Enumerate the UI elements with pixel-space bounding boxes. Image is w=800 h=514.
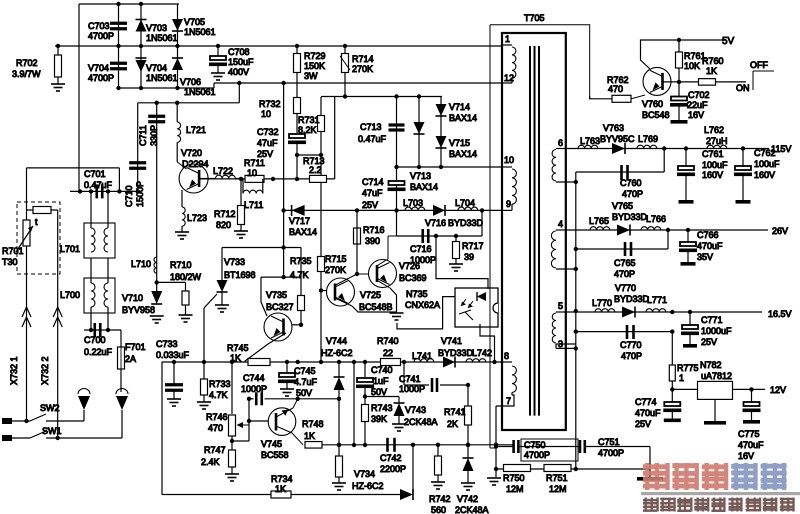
svg-text:V743: V743 [405,405,426,415]
svg-text:270K: 270K [352,64,373,74]
svg-text:V760: V760 [642,99,663,109]
svg-text:4.7K: 4.7K [290,270,309,280]
svg-text:BT1698: BT1698 [224,270,256,280]
svg-text:V725: V725 [360,290,381,300]
svg-text:OFF: OFF [750,60,768,70]
svg-text:25V: 25V [362,200,378,210]
svg-text:R715: R715 [325,254,347,264]
svg-text:1N5061: 1N5061 [184,87,216,97]
svg-text:L741: L741 [412,351,432,361]
svg-text:L763: L763 [580,136,600,146]
svg-text:2CK48A: 2CK48A [404,417,438,427]
svg-text:L742: L742 [472,348,492,358]
svg-text:470P: 470P [622,189,643,199]
svg-text:1000uF: 1000uF [701,326,732,336]
svg-text:V735: V735 [266,290,287,300]
svg-text:10K: 10K [684,61,700,71]
svg-text:50V: 50V [371,387,387,397]
svg-text:V765: V765 [612,201,633,211]
svg-text:8: 8 [504,351,509,361]
svg-text:3.9/7W: 3.9/7W [12,69,41,79]
svg-text:L765: L765 [589,216,609,226]
svg-text:5: 5 [558,301,563,311]
svg-text:L704: L704 [455,198,475,208]
svg-text:9: 9 [506,199,511,209]
svg-text:1K: 1K [304,431,315,441]
svg-text:L701: L701 [60,244,80,254]
svg-text:26V: 26V [772,226,788,236]
svg-text:10: 10 [504,155,514,165]
svg-text:4700P: 4700P [524,450,550,460]
svg-text:C775: C775 [738,429,760,439]
svg-text:BYD33D: BYD33D [612,212,648,222]
svg-text:V770: V770 [615,283,636,293]
svg-text:1K: 1K [275,484,286,494]
svg-text:L722: L722 [213,166,233,176]
svg-text:R775: R775 [677,363,699,373]
svg-text:V741: V741 [441,336,462,346]
svg-text:C733: C733 [156,339,178,349]
svg-text:47uF: 47uF [257,138,278,148]
svg-text:16.5V: 16.5V [768,309,792,319]
svg-text:180/2W: 180/2W [170,272,202,282]
svg-text:0.47uF: 0.47uF [358,134,387,144]
svg-text:2.4K: 2.4K [201,457,220,467]
svg-text:25V: 25V [701,337,717,347]
svg-text:6: 6 [558,138,563,148]
svg-text:C732: C732 [257,127,279,137]
svg-text:4.7K: 4.7K [209,390,228,400]
svg-text:39K: 39K [371,414,387,424]
svg-text:ON: ON [736,83,750,93]
svg-text:390: 390 [365,236,380,246]
svg-text:SW1: SW1 [42,426,62,436]
svg-text:50V: 50V [296,388,312,398]
svg-text:L769: L769 [638,134,658,144]
svg-text:R733: R733 [209,379,231,389]
svg-text:560: 560 [431,505,446,514]
svg-text:T705: T705 [524,13,545,23]
svg-text:1N5061: 1N5061 [184,27,216,37]
svg-text:4700P: 4700P [598,448,624,458]
svg-text:47uF: 47uF [362,188,383,198]
svg-text:150uF: 150uF [228,57,254,67]
svg-text:T30: T30 [2,257,18,267]
svg-text:4.7uF: 4.7uF [294,377,318,387]
svg-text:L762: L762 [704,125,724,135]
svg-text:R701: R701 [2,246,24,256]
svg-text:R712: R712 [214,209,236,219]
svg-text:R702: R702 [16,58,38,68]
svg-text:4: 4 [558,219,563,229]
svg-text:V742: V742 [457,494,478,504]
svg-text:39: 39 [464,252,474,262]
svg-text:C702: C702 [688,90,710,100]
svg-text:100uF: 100uF [754,159,780,169]
svg-text:12M: 12M [549,484,567,494]
svg-text:V745: V745 [261,439,282,449]
svg-text:C761: C761 [702,149,724,159]
svg-text:C708: C708 [228,47,250,57]
svg-text:BYV95C: BYV95C [600,134,635,144]
svg-text:V733: V733 [224,257,245,267]
svg-text:R745: R745 [227,343,249,353]
svg-text:C766: C766 [697,230,719,240]
svg-text:10: 10 [261,109,271,119]
svg-text:22: 22 [383,348,393,358]
svg-text:C744: C744 [243,373,265,383]
svg-text:X732 1: X732 1 [9,356,19,385]
svg-text:270K: 270K [325,265,346,275]
svg-text:L703: L703 [403,198,423,208]
svg-text:470: 470 [608,84,623,94]
svg-text:0.47uF: 0.47uF [84,180,113,190]
svg-text:150K: 150K [304,61,325,71]
svg-text:820: 820 [216,220,231,230]
svg-text:BYD33D: BYD33D [448,218,484,228]
svg-text:1N5061: 1N5061 [146,73,178,83]
svg-text:2200P: 2200P [380,464,406,474]
svg-text:R714: R714 [352,54,374,64]
svg-text:BC369: BC369 [399,273,427,283]
svg-text:L711: L711 [244,200,263,210]
svg-text:C770: C770 [620,340,642,350]
svg-text:C765: C765 [614,258,636,268]
svg-text:C760: C760 [620,178,642,188]
svg-text:N735: N735 [406,289,428,299]
svg-text:C762: C762 [754,148,776,158]
svg-text:V715: V715 [449,138,470,148]
svg-text:1000P: 1000P [241,384,267,394]
svg-text:400V: 400V [228,67,249,77]
svg-text:BYD33D: BYD33D [614,294,650,304]
svg-text:L700: L700 [60,290,80,300]
svg-text:R746: R746 [206,412,228,422]
svg-text:X732 2: X732 2 [40,356,50,385]
svg-text:R751: R751 [546,473,568,483]
svg-text:V716: V716 [425,218,446,228]
svg-text:L771: L771 [647,295,667,305]
svg-text:25V: 25V [635,419,651,429]
svg-text:470uF: 470uF [697,241,723,251]
svg-text:V734: V734 [354,469,375,479]
svg-text:16V: 16V [688,110,704,120]
svg-text:N782: N782 [700,360,722,370]
svg-text:L710: L710 [131,259,151,269]
svg-text:R729: R729 [304,51,326,61]
svg-text:BYV958: BYV958 [122,305,155,315]
svg-text:R716: R716 [363,225,385,235]
svg-text:1: 1 [505,34,510,44]
svg-text:uA7812: uA7812 [701,371,732,381]
svg-text:C716: C716 [410,244,432,254]
svg-text:8.2K: 8.2K [298,125,317,135]
svg-text:HZ-6C2: HZ-6C2 [352,481,384,491]
svg-text:1N5061: 1N5061 [146,33,178,43]
svg-text:2K: 2K [447,419,458,429]
svg-text:L770: L770 [592,298,612,308]
svg-text:BC327: BC327 [266,302,294,312]
svg-text:R734: R734 [271,474,293,484]
svg-text:C714: C714 [362,177,384,187]
svg-text:L766: L766 [646,214,666,224]
svg-text:160V: 160V [754,170,775,180]
svg-text:R740: R740 [377,336,399,346]
svg-text:470: 470 [208,423,223,433]
svg-text:2A: 2A [125,354,136,364]
svg-text:1uF: 1uF [373,376,389,386]
svg-text:7: 7 [506,396,511,406]
svg-text:1500P: 1500P [135,181,145,207]
svg-text:V705: V705 [184,17,205,27]
svg-text:BC548B: BC548B [359,302,393,312]
svg-text:L723: L723 [187,213,207,223]
svg-text:V704: V704 [146,63,167,73]
svg-text:BAX14: BAX14 [289,227,317,237]
svg-text:R743: R743 [371,403,393,413]
svg-text:V717: V717 [289,216,310,226]
svg-text:0.033uF: 0.033uF [156,350,190,360]
svg-text:C700: C700 [84,335,106,345]
svg-text:1: 1 [679,373,684,383]
svg-text:35V: 35V [697,252,713,262]
svg-text:C710: C710 [124,185,134,207]
svg-text:C771: C771 [701,315,723,325]
svg-text:C742: C742 [380,453,402,463]
svg-text:V720: V720 [181,148,202,158]
svg-text:R760: R760 [702,56,724,66]
svg-text:1K: 1K [706,66,717,76]
svg-text:V713: V713 [410,171,431,181]
svg-text:2.2: 2.2 [309,165,322,175]
svg-text:V763: V763 [603,123,624,133]
svg-text:470uF: 470uF [635,408,661,418]
svg-text:R717: R717 [462,241,484,251]
svg-text:3: 3 [558,339,563,349]
svg-text:3W: 3W [304,71,318,81]
svg-text:12M: 12M [506,484,524,494]
svg-text:BC558: BC558 [261,450,289,460]
svg-text:BAX14: BAX14 [449,113,477,123]
svg-text:V704: V704 [88,63,109,73]
svg-text:100uF: 100uF [702,160,728,170]
svg-text:R732: R732 [259,99,281,109]
svg-text:10: 10 [247,168,257,178]
svg-text:C751: C751 [598,437,620,447]
svg-text:R748: R748 [302,419,324,429]
svg-text:R710: R710 [170,260,192,270]
svg-text:C703: C703 [88,21,110,31]
svg-text:R741: R741 [444,407,466,417]
svg-text:F701: F701 [125,342,146,352]
svg-text:4700P: 4700P [88,31,114,41]
svg-text:R711: R711 [244,158,265,168]
svg-text:BAX14: BAX14 [410,182,438,192]
svg-text:R747: R747 [204,445,226,455]
svg-text:2CK48A: 2CK48A [455,505,489,514]
svg-text:BAX14: BAX14 [449,149,477,159]
svg-text:C713: C713 [360,122,382,132]
svg-text:V703: V703 [146,23,167,33]
svg-text:CNX62A: CNX62A [405,300,440,310]
svg-text:4700P: 4700P [88,73,114,83]
svg-text:R750: R750 [503,473,525,483]
svg-text:SW2: SW2 [40,403,60,413]
svg-text:R742: R742 [429,494,451,504]
svg-text:12: 12 [504,73,514,83]
svg-text:L721: L721 [186,125,206,135]
svg-text:BC548: BC548 [642,110,670,120]
svg-text:16V: 16V [738,451,754,461]
svg-text:22uF: 22uF [687,100,708,110]
svg-text:V744: V744 [326,336,347,346]
svg-text:V706: V706 [180,77,201,87]
svg-text:V714: V714 [449,102,470,112]
svg-text:C701: C701 [84,169,106,179]
svg-text:V726: V726 [399,261,420,271]
svg-text:HZ-6C2: HZ-6C2 [321,348,353,358]
svg-text:160V: 160V [702,170,723,180]
svg-text:C711: C711 [138,125,148,146]
svg-text:5V: 5V [722,36,735,47]
svg-text:27uH: 27uH [706,136,728,146]
svg-text:R731: R731 [298,115,320,125]
svg-text:470P: 470P [614,269,635,279]
svg-text:12V: 12V [770,385,786,395]
svg-text:0.22uF: 0.22uF [84,347,113,357]
svg-text:C774: C774 [635,397,657,407]
svg-text:V710: V710 [122,293,143,303]
svg-text:330P: 330P [149,125,159,146]
svg-text:C745: C745 [294,366,316,376]
svg-text:470P: 470P [621,351,642,361]
svg-text:470uF: 470uF [738,440,764,450]
svg-text:C741: C741 [399,374,421,384]
svg-text:1000P: 1000P [399,384,425,394]
svg-text:C740: C740 [371,365,393,375]
svg-text:R735: R735 [290,256,312,266]
svg-text:C750: C750 [524,440,546,450]
svg-text:D2294: D2294 [182,159,209,169]
